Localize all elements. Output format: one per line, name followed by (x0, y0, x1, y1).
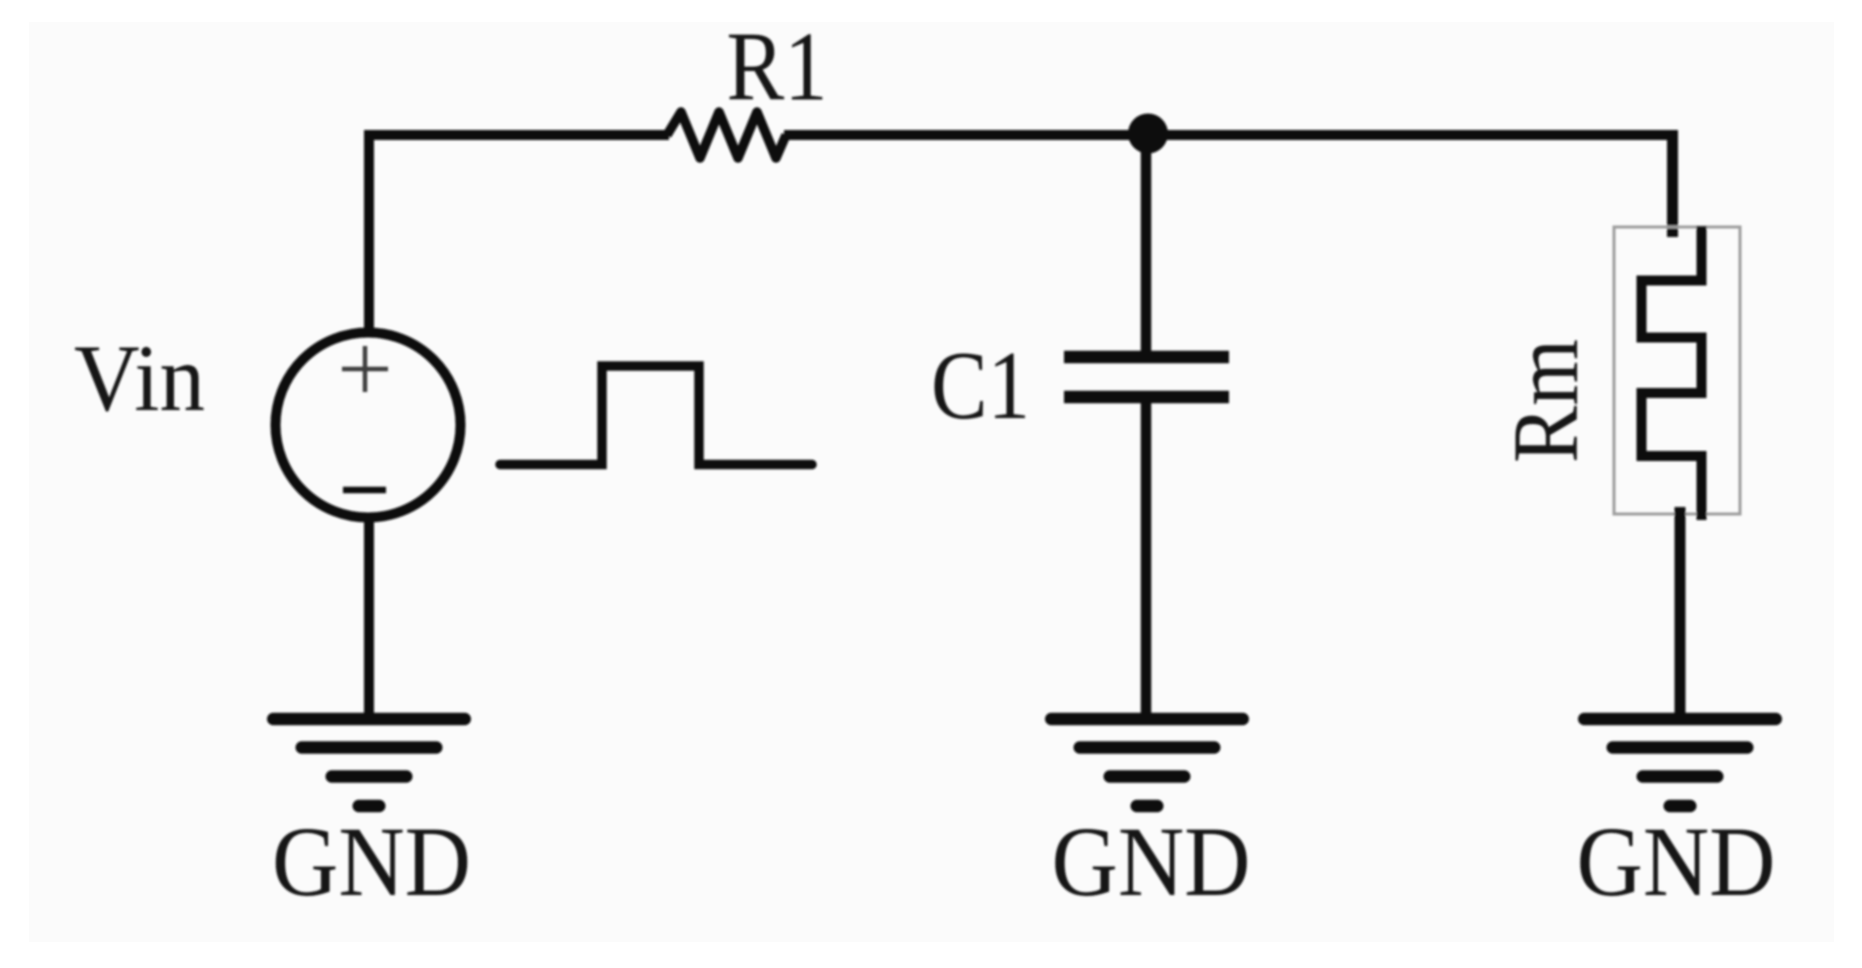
wire: top rail middle segment (R1 to node) (784, 130, 1148, 140)
svg-text:Vin: Vin (74, 325, 205, 431)
wire: C1 bottom plate to ground (1141, 401, 1152, 719)
svg-text:C1: C1 (931, 332, 1030, 439)
resistor R1 (667, 112, 786, 158)
voltage source Vin circle (276, 333, 461, 518)
wire: memristor bottom lead to ground (1675, 507, 1686, 719)
wire: top rail left segment (Vin corner to R1) (364, 130, 669, 140)
capacitor C1 top plate (1064, 351, 1229, 364)
ground symbol (middle, under C1) (1051, 719, 1243, 806)
svg-text:Rm: Rm (1495, 339, 1598, 463)
wire: Vin bottom stem to ground (364, 518, 374, 719)
svg-text:GND: GND (1577, 806, 1776, 917)
memristor Rm meander element (1642, 226, 1702, 520)
svg-text:GND: GND (272, 806, 471, 917)
minus sign (343, 487, 386, 494)
node junction dot (1128, 114, 1168, 154)
svg-text:R1: R1 (727, 13, 828, 122)
plus sign (342, 346, 388, 392)
wire: node to C1 top plate (1141, 135, 1152, 353)
wire: memristor top lead (corner down into box) (1667, 130, 1678, 237)
wire: Vin top stem up to top rail (364, 135, 374, 332)
memristor Rm body box (1614, 227, 1740, 514)
wire: top rail right segment (node to memristor corner) (1148, 130, 1673, 140)
ground symbol (left, under Vin) (273, 719, 465, 806)
ground symbol (right, under Rm) (1584, 719, 1776, 806)
pulse waveform symbol (500, 366, 812, 465)
svg-text:GND: GND (1052, 806, 1251, 917)
capacitor C1 bottom plate (1064, 391, 1229, 404)
